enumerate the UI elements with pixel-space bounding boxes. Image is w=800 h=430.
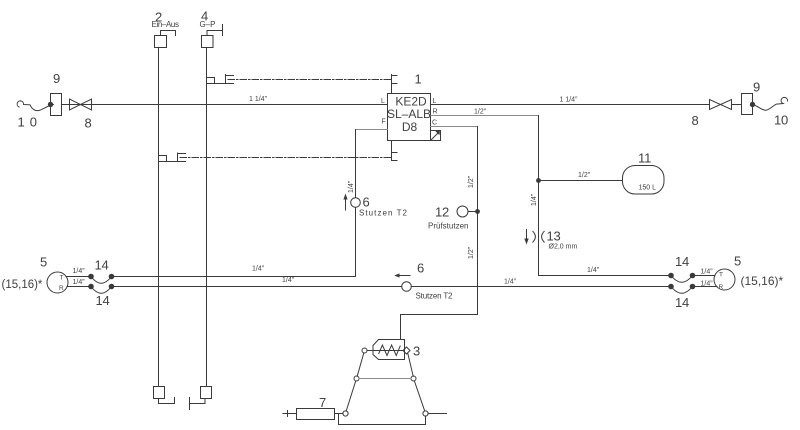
svg-text:1/2”: 1/2” xyxy=(468,246,475,259)
svg-text:Prüfstutzen: Prüfstutzen xyxy=(428,222,468,231)
svg-text:Stutzen T2: Stutzen T2 xyxy=(359,209,408,218)
svg-text:F: F xyxy=(382,119,386,126)
svg-text:C: C xyxy=(432,120,437,127)
svg-text:R: R xyxy=(719,284,724,291)
svg-text:14: 14 xyxy=(675,295,689,310)
svg-text:R: R xyxy=(59,285,64,292)
svg-text:5: 5 xyxy=(734,254,741,269)
svg-text:1/4”: 1/4” xyxy=(73,268,86,275)
svg-text:L: L xyxy=(433,98,437,105)
svg-text:D8: D8 xyxy=(402,120,418,134)
svg-text:G–P: G–P xyxy=(200,20,216,29)
svg-text:8: 8 xyxy=(692,113,699,128)
svg-text:T: T xyxy=(60,275,64,282)
svg-text:10: 10 xyxy=(18,115,42,130)
svg-text:6: 6 xyxy=(363,195,370,210)
svg-text:(15,16)*: (15,16)* xyxy=(2,279,43,291)
svg-text:11: 11 xyxy=(638,151,651,166)
svg-text:Ø2,0 mm: Ø2,0 mm xyxy=(549,244,578,251)
svg-text:1/4”: 1/4” xyxy=(252,266,265,273)
svg-text:1: 1 xyxy=(415,72,422,87)
svg-text:8: 8 xyxy=(85,116,92,131)
svg-text:3: 3 xyxy=(413,344,420,359)
svg-text:(15,16)*: (15,16)* xyxy=(741,274,784,288)
svg-text:150 L: 150 L xyxy=(639,185,657,192)
svg-text:9: 9 xyxy=(753,80,760,95)
svg-text:14: 14 xyxy=(96,293,110,308)
svg-text:1/4”: 1/4” xyxy=(282,277,295,284)
svg-text:Stutzen T2: Stutzen T2 xyxy=(416,292,454,301)
svg-text:7: 7 xyxy=(319,395,326,410)
svg-text:1/4”: 1/4” xyxy=(73,279,86,286)
svg-text:1/4”: 1/4” xyxy=(587,267,600,274)
svg-text:12: 12 xyxy=(435,205,449,220)
svg-text:L: L xyxy=(381,98,385,105)
svg-text:1 1/4”: 1 1/4” xyxy=(560,97,579,104)
svg-text:1/2”: 1/2” xyxy=(474,109,487,116)
svg-text:1/4”: 1/4” xyxy=(701,281,714,288)
svg-text:14: 14 xyxy=(95,258,109,273)
svg-text:KE2D: KE2D xyxy=(395,94,427,108)
svg-text:1/2”: 1/2” xyxy=(468,175,475,188)
svg-text:10: 10 xyxy=(774,113,788,128)
svg-text:T: T xyxy=(719,272,723,279)
svg-text:1 1/4”: 1 1/4” xyxy=(249,96,268,103)
svg-text:Ein–Aus: Ein–Aus xyxy=(152,20,180,29)
svg-text:R: R xyxy=(433,109,438,116)
svg-text:1/4”: 1/4” xyxy=(531,193,538,206)
svg-text:1/4”: 1/4” xyxy=(701,269,714,276)
svg-text:9: 9 xyxy=(53,71,60,86)
svg-text:1/2”: 1/2” xyxy=(578,172,591,179)
svg-text:14: 14 xyxy=(675,254,689,269)
svg-text:5: 5 xyxy=(40,255,47,270)
svg-text:1/4”: 1/4” xyxy=(504,279,517,286)
svg-text:13: 13 xyxy=(547,229,561,244)
svg-text:1/4”: 1/4” xyxy=(348,180,355,193)
svg-text:6: 6 xyxy=(417,261,424,276)
